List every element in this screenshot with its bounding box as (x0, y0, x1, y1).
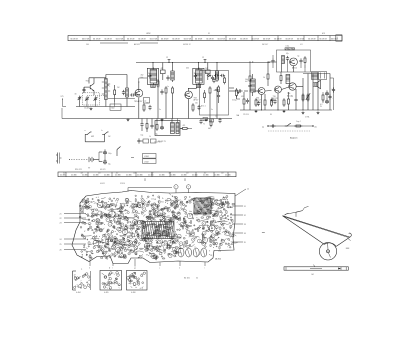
PCB bottom tick e (134, 259, 136, 267)
svg-text:21 480: 21 480 (181, 175, 187, 177)
svg-text:407: 407 (116, 173, 119, 175)
ratio detector box left (312, 72, 318, 80)
transistor TS6 (289, 83, 296, 90)
svg-text:2k7: 2k7 (205, 68, 208, 70)
sub-circuit resistor R24 (294, 125, 296, 127)
AF top rail ext (268, 61, 277, 63)
pointer rail end cap right (345, 267, 347, 270)
resistor R7 (172, 86, 174, 88)
svg-text:84 105: 84 105 (184, 278, 190, 280)
resistor R16 (255, 98, 257, 100)
ratio detector box right (319, 72, 327, 80)
svg-text:5k6: 5k6 (128, 222, 131, 224)
svg-text:68p: 68p (218, 250, 221, 252)
svg-text:21 480: 21 480 (203, 175, 209, 177)
PCB top callout 9 (186, 185, 190, 189)
capacitor C6 (130, 94, 132, 96)
svg-text:32: 32 (244, 215, 246, 217)
svg-text:66 19 09: 66 19 09 (104, 39, 111, 41)
svg-text:21 480: 21 480 (60, 175, 66, 177)
svg-text:100: 100 (146, 102, 149, 104)
svg-text:L5: L5 (105, 251, 107, 253)
svg-text:602 84 12: 602 84 12 (183, 44, 191, 46)
supply tap mark 1 (168, 60, 170, 63)
wire transformer top (171, 119, 173, 123)
ground G4 (127, 119, 129, 120)
svg-text:66 19 09: 66 19 09 (229, 39, 236, 41)
ground G1 (90, 108, 92, 109)
PCB shield can hatched (194, 198, 211, 214)
ferrite antenna coil ladder (105, 79, 108, 100)
connection table box bottom (143, 159, 157, 164)
svg-text:975: 975 (61, 96, 64, 98)
svg-text:6p: 6p (298, 56, 300, 58)
dial scale frequency labels (71, 39, 339, 41)
AF coupling capacitor C18 (237, 90, 239, 92)
svg-text:407: 407 (133, 173, 136, 175)
svg-text:Cap 4: Cap 4 (296, 121, 301, 123)
detector caps row (214, 75, 216, 77)
wire switch bus (84, 134, 86, 142)
svg-text:452: 452 (141, 75, 144, 77)
svg-text:4 465: 4 465 (104, 292, 109, 294)
osc components right (300, 58, 302, 60)
wire to mixer (126, 97, 128, 107)
hanging resistor R28 (156, 123, 158, 125)
mixer out box (144, 98, 150, 104)
svg-text:470: 470 (183, 125, 186, 127)
chassis strip screw mark 1 (144, 178, 146, 181)
svg-text:5k log: 5k log (232, 100, 236, 102)
svg-text:100: 100 (195, 102, 198, 104)
transistor TS3 (185, 91, 193, 99)
svg-text:407: 407 (81, 173, 84, 175)
svg-text:68p: 68p (173, 212, 176, 214)
svg-text:0.1: 0.1 (179, 199, 181, 201)
PCB component cluster right (177, 196, 238, 250)
svg-text:22: 22 (60, 218, 62, 220)
svg-text:R21: R21 (207, 216, 210, 218)
svg-text:21 480: 21 480 (148, 175, 154, 177)
wire R14 (180, 127, 183, 129)
svg-text:-: - (332, 98, 333, 100)
svg-text:4k7: 4k7 (214, 90, 217, 92)
svg-text:1k: 1k (263, 77, 265, 79)
svg-text:MA: MA (237, 114, 240, 117)
svg-text:c: c (159, 267, 160, 269)
transistor TS1 (89, 85, 91, 89)
dial scale under-row labels (86, 43, 303, 46)
wire IF2 bus (198, 63, 200, 70)
transistor TS7 (290, 58, 298, 66)
hanging resistor R27 (146, 122, 148, 124)
svg-text:66 19 09: 66 19 09 (82, 39, 89, 41)
svg-text:R21: R21 (195, 215, 198, 217)
battery B1 (88, 157, 90, 162)
transistor TS4 (258, 88, 265, 95)
svg-text:LW: LW (108, 136, 111, 138)
svg-text:L5: L5 (179, 253, 181, 255)
resistor R15 (249, 74, 251, 76)
svg-text:21 480: 21 480 (126, 175, 132, 177)
dial pulley hub (327, 250, 330, 253)
svg-text:66 19 09: 66 19 09 (184, 39, 191, 41)
dial cord anchor dash (346, 247, 349, 249)
electrolytic capacitor C17 (104, 159, 106, 161)
AF ground G8 (317, 112, 319, 113)
svg-text:47k: 47k (182, 245, 185, 247)
svg-text:66 19 09: 66 19 09 (297, 39, 304, 41)
resistor R19 (283, 98, 285, 100)
coil column L5 (171, 71, 174, 80)
svg-text:4k7: 4k7 (149, 240, 152, 242)
svg-text:66 19 09: 66 19 09 (252, 39, 259, 41)
svg-text:84: 84 (312, 274, 314, 276)
svg-text:1k: 1k (162, 198, 164, 200)
svg-text:25: 25 (60, 244, 62, 246)
svg-text:407: 407 (186, 173, 189, 175)
AF junction dots (249, 61, 250, 62)
svg-text:66 19 09: 66 19 09 (218, 39, 225, 41)
svg-text:r: r (204, 267, 205, 269)
far right rail (333, 78, 335, 110)
svg-text:12-320: 12-320 (84, 107, 89, 109)
svg-text:W: W (320, 106, 322, 108)
wire R15 (249, 83, 251, 84)
wire TS6 out (296, 86, 303, 88)
svg-text:66 19 09: 66 19 09 (127, 39, 134, 41)
dial scale end block (336, 35, 342, 41)
dial cord pulley wrap (324, 243, 336, 247)
emitter resistor R26 (192, 103, 194, 105)
output column cap C31 (329, 94, 331, 96)
svg-text:1k: 1k (149, 136, 151, 138)
resistor block R4 (161, 70, 166, 74)
svg-text:12: 12 (202, 57, 204, 59)
svg-text:2n 82 1n: 2n 82 1n (204, 72, 210, 74)
svg-text:AGC 1: AGC 1 (201, 105, 206, 108)
svg-text:5k6: 5k6 (150, 244, 153, 246)
dial cord upper run inner (284, 217, 349, 238)
svg-text:100µ: 100µ (108, 153, 112, 155)
svg-text:66 19 09: 66 19 09 (116, 39, 123, 41)
svg-text:FM 10.7: FM 10.7 (262, 44, 268, 46)
svg-text:2: 2 (179, 267, 180, 269)
antenna input stub (62, 99, 64, 107)
PCB bottom tick f (179, 261, 181, 266)
svg-text:S4: S4 (101, 246, 103, 248)
pointer rail end cap left (285, 267, 287, 270)
svg-text:12: 12 (166, 57, 168, 59)
wire R18 (280, 72, 282, 74)
svg-text:407: 407 (221, 173, 224, 175)
oscillator coil L4 (282, 56, 285, 64)
svg-text:207: 207 (215, 115, 218, 117)
svg-text:9: 9 (188, 187, 189, 189)
svg-text:21 480: 21 480 (192, 175, 198, 177)
svg-text:21 480: 21 480 (137, 175, 143, 177)
resistor R5 (157, 79, 159, 81)
FM oscillator shield box (277, 50, 311, 72)
detail view a frame (72, 271, 74, 290)
svg-text:5k6: 5k6 (102, 234, 105, 236)
svg-text:68p: 68p (166, 201, 169, 203)
resistor R22 (302, 93, 304, 95)
svg-text:50µ: 50µ (108, 164, 111, 166)
svg-text:10n: 10n (206, 231, 209, 233)
svg-text:a: a (81, 268, 83, 270)
connection table box top (143, 154, 157, 159)
PCB bottom tick c (204, 262, 206, 266)
supply rail top (136, 62, 270, 64)
svg-text:R50 121: R50 121 (75, 169, 82, 171)
band switch S2 (LW) (103, 133, 106, 136)
detail view b frame (100, 271, 122, 291)
AF hanging resistor Rb (264, 98, 266, 100)
svg-text:470: 470 (241, 96, 244, 98)
svg-text:5k6: 5k6 (107, 210, 110, 212)
capacitor C9 (167, 75, 169, 77)
AF extra cap Cd (258, 101, 260, 103)
svg-text:21 480: 21 480 (214, 175, 220, 177)
capacitor C10 (161, 89, 163, 91)
capacitor C11 (212, 75, 214, 77)
PCB top callout 7 (174, 185, 178, 189)
wire TS3 base (188, 89, 190, 92)
wire C18 (229, 90, 237, 92)
IF transformer S4 coil (147, 68, 158, 84)
svg-text:R21: R21 (116, 209, 119, 211)
svg-text:10n: 10n (167, 215, 170, 217)
hanging cap C28 (151, 123, 153, 125)
capacitor C20 (287, 56, 289, 58)
diode D1 (207, 75, 208, 77)
svg-text:U B41: U B41 (144, 156, 149, 158)
svg-text:34: 34 (244, 233, 246, 235)
svg-text:35: 35 (244, 242, 246, 244)
resistor R6 (165, 86, 167, 88)
pointer clip arm (296, 211, 303, 213)
dial scale dividers (90, 36, 330, 41)
svg-text:0.6-1: 0.6-1 (286, 46, 290, 48)
wire IF bottom rail (62, 118, 232, 120)
wire TS2 emitter (138, 98, 140, 119)
sub-circuit dashed link (268, 130, 310, 132)
dial cord end loop (349, 233, 352, 237)
AF ground G7 (302, 112, 304, 113)
svg-text:33: 33 (244, 224, 246, 226)
svg-text:4k7: 4k7 (114, 216, 117, 218)
ground G3 (205, 119, 207, 120)
svg-text:C12: C12 (151, 198, 154, 200)
capacitor C3 (83, 87, 85, 89)
hanging capacitor C14 (141, 122, 143, 124)
PCB transformer hatched (142, 222, 174, 239)
wire volume (229, 87, 234, 89)
PCB component cluster mid (130, 193, 184, 260)
resistor R14 (181, 127, 183, 129)
svg-text:10µ: 10µ (141, 135, 144, 137)
svg-text:407: 407 (151, 173, 154, 175)
emitter cap C27 (198, 105, 200, 107)
driver transformer S7 (250, 79, 255, 92)
rail capacitor C30 (200, 119, 202, 121)
svg-text:C30: C30 (126, 202, 129, 204)
svg-text:0.1: 0.1 (127, 225, 129, 227)
resistor R9 (209, 86, 211, 88)
PCB component cluster left (79, 198, 137, 260)
detail view b content (102, 272, 121, 290)
svg-text:452: 452 (186, 68, 189, 70)
detail view c frame (127, 271, 148, 291)
PCB bottom tick a (112, 264, 114, 267)
wire speaker return (329, 74, 331, 111)
PCB bottom tick b (159, 263, 161, 267)
svg-text:a: a (109, 85, 110, 87)
svg-text:32 816: 32 816 (120, 183, 125, 185)
capacitor C8 (194, 73, 196, 75)
PCB electrolytic capacitor row (178, 248, 207, 257)
svg-text:407: 407 (204, 173, 207, 175)
svg-text:Abgleich: Abgleich (290, 137, 298, 140)
gang part label box (110, 104, 121, 110)
coil L3 (126, 88, 129, 97)
variable capacitor C1a (86, 96, 88, 98)
AF hanging resistor Ra (243, 97, 245, 99)
svg-text:R8: R8 (210, 255, 212, 257)
svg-text:66 19 09: 66 19 09 (206, 39, 213, 41)
table tick (131, 157, 134, 159)
svg-text:66 19 09: 66 19 09 (93, 39, 100, 41)
svg-text:a: a (85, 130, 86, 132)
AF ground G5 (255, 110, 257, 111)
supply tap mark 2 (204, 60, 206, 63)
svg-text:66 19 09: 66 19 09 (71, 39, 78, 41)
svg-text:64: 64 (196, 278, 198, 280)
svg-text:R8: R8 (100, 250, 102, 252)
emitter resistor R25 (143, 103, 145, 105)
chassis strip dividers (66, 172, 228, 177)
svg-text:(a): (a) (262, 126, 265, 128)
svg-text:AM 452: AM 452 (134, 43, 140, 46)
svg-text:540: 540 (111, 108, 114, 110)
transistor TS5 (275, 86, 282, 93)
svg-text:31: 31 (244, 206, 246, 208)
electrolytic capacitor C23 (326, 98, 328, 100)
svg-text:24: 24 (60, 239, 62, 241)
wire TS1 collector (93, 78, 95, 84)
capacitor C19b (249, 83, 251, 85)
svg-text:21 480: 21 480 (71, 175, 77, 177)
AF hanging cap Cc (295, 97, 297, 99)
wire speaker feed top (303, 73, 330, 75)
under-box cap (219, 118, 221, 120)
PCB left callout leaders (60, 214, 87, 252)
output rail vertical 2 (312, 74, 314, 111)
detector mid column (218, 85, 220, 87)
wire trimmer drop (79, 101, 81, 107)
band switch S1 (MW) (86, 133, 89, 136)
wire front-end bottom rail (76, 106, 135, 108)
IF transformer S5 base block (196, 84, 200, 87)
wire mixer drop (114, 85, 116, 88)
coil column L6 (215, 71, 218, 80)
wire R5R6 drops (157, 88, 159, 119)
tuning gang dashed enclosure (83, 93, 100, 105)
svg-text:66 19 09: 66 19 09 (263, 39, 270, 41)
capacitor C12 (213, 78, 215, 80)
dial cord return run (336, 237, 350, 246)
resistor block R8 (206, 70, 211, 74)
resistor R18 (280, 74, 282, 76)
transistor TS2 (135, 89, 143, 97)
svg-text:MW: MW (91, 136, 94, 138)
pointer clip hook (285, 214, 290, 216)
output rail vertical 1 (307, 74, 309, 111)
svg-text:21 480: 21 480 (159, 175, 165, 177)
svg-text:12: 12 (247, 189, 249, 191)
dial pulley wheel (319, 243, 336, 260)
svg-text:540: 540 (86, 44, 89, 46)
svg-text:c: c (135, 267, 136, 269)
wire dashed battery lead (71, 159, 88, 161)
AF hanging cap Ca (247, 98, 249, 100)
svg-text:40 621: 40 621 (100, 183, 105, 185)
svg-text:21 480: 21 480 (82, 175, 88, 177)
wire front-end top (88, 78, 90, 84)
svg-text:66 19 09: 66 19 09 (240, 39, 247, 41)
battery lead dot (69, 159, 70, 160)
detail view c content (127, 272, 146, 289)
svg-text:C12: C12 (135, 252, 138, 254)
PCB corner leader (235, 189, 246, 196)
svg-text:R8: R8 (132, 213, 134, 215)
svg-text:b: b (109, 267, 111, 269)
wire IF1 bus (152, 63, 154, 70)
thermistor R23 (307, 93, 309, 95)
svg-text:Ohrh. 225: Ohrh. 225 (154, 141, 162, 144)
output rail vertical 3 (317, 74, 319, 111)
wire AGC line (138, 82, 140, 91)
svg-text:0.1: 0.1 (135, 233, 137, 235)
svg-text:66 19 09: 66 19 09 (195, 39, 202, 41)
sub-circuit capacitor C24 (270, 125, 272, 127)
AF hanging cap Cb (274, 99, 276, 101)
svg-text:4 466: 4 466 (131, 292, 136, 294)
svg-text:407: 407 (63, 173, 66, 175)
svg-text:21 480: 21 480 (93, 175, 99, 177)
svg-text:1k: 1k (291, 96, 293, 98)
resistor R11 (204, 91, 206, 93)
svg-text:68p: 68p (174, 243, 177, 245)
svg-text:225: 225 (149, 213, 152, 215)
svg-text:5: 5 (89, 267, 90, 269)
PCB reference designator texts (98, 198, 232, 257)
electrolytic capacitor C22 (326, 90, 328, 92)
on-off switch S3 (116, 150, 118, 157)
speaker magnet (313, 83, 315, 87)
svg-text:21 480: 21 480 (170, 175, 176, 177)
capacitor C7 (149, 73, 151, 75)
svg-text:26: 26 (60, 250, 62, 252)
wire AF bottom rail (240, 109, 332, 111)
svg-text:21 480: 21 480 (104, 175, 110, 177)
svg-text:4 464: 4 464 (76, 292, 81, 294)
AF ground G6 (283, 110, 285, 111)
svg-text:(b): (b) (315, 126, 318, 128)
earphone jack circuit (143, 139, 149, 143)
svg-text:49 021: 49 021 (100, 169, 106, 171)
